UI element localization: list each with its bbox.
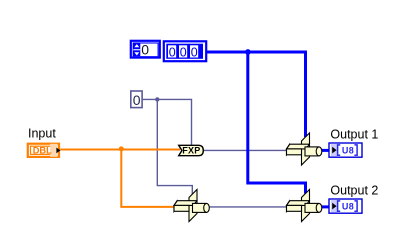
svg-text:0: 0 bbox=[180, 46, 187, 60]
svg-text:DBL: DBL bbox=[33, 146, 52, 156]
svg-text:Output 1: Output 1 bbox=[330, 128, 378, 142]
svg-text:0: 0 bbox=[141, 42, 149, 58]
svg-text:Input: Input bbox=[28, 127, 56, 141]
svg-text:0: 0 bbox=[133, 92, 141, 108]
svg-text:Output 2: Output 2 bbox=[330, 184, 378, 198]
svg-text:0: 0 bbox=[169, 46, 176, 60]
svg-text:FXP: FXP bbox=[182, 145, 200, 155]
svg-text:U8: U8 bbox=[342, 145, 354, 155]
svg-text:0: 0 bbox=[191, 46, 198, 60]
svg-text:U8: U8 bbox=[342, 201, 354, 211]
